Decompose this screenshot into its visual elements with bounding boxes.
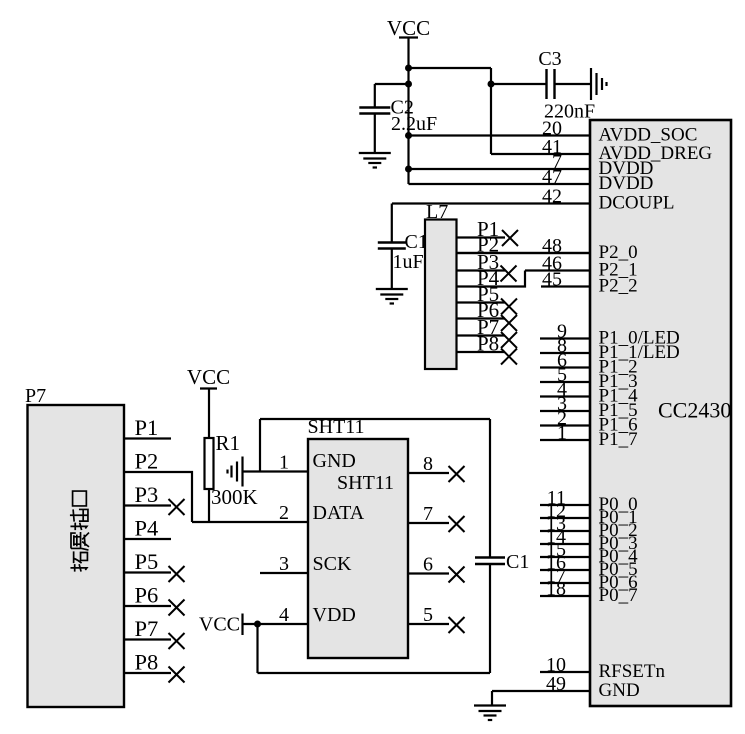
- wire VCC bar to SHT11 pin4: [243, 623, 309, 625]
- CC2430 pin 3 P1_5 wire: [540, 410, 591, 412]
- svg-text:P6: P6: [135, 583, 159, 608]
- no-connect X at SHT11 pin 7: [449, 516, 465, 532]
- SHT11 pin 5 stub wire: [408, 623, 449, 625]
- no-connect X at P7 pin P3: [169, 499, 185, 515]
- IC U1 SHT11 body: [308, 439, 408, 658]
- svg-text:P2_2: P2_2: [599, 276, 638, 297]
- CC2430 pin 48 P2_0 wire: [457, 252, 592, 254]
- CC2430 pin 42 DCOUPL wire: [392, 202, 591, 204]
- svg-text:C1: C1: [506, 551, 529, 573]
- junction at SHT11 VDD: [254, 621, 261, 628]
- resistor R1 body: [205, 438, 214, 489]
- capacitor C3: [547, 69, 555, 99]
- wire P7 pin P8: [124, 672, 171, 674]
- svg-text:DATA: DATA: [313, 502, 365, 524]
- wire P7 pin P1: [124, 437, 171, 439]
- svg-text:4: 4: [279, 604, 289, 626]
- capacitor C2: [359, 108, 390, 114]
- CC2430 pin 45 P2_2 wire: [541, 285, 591, 287]
- ground below CC2430 GND: [474, 706, 506, 721]
- wire SHT11 loop right lower: [489, 564, 491, 673]
- no-connect X at L7 pin P3: [501, 266, 517, 282]
- svg-text:P8: P8: [135, 650, 159, 675]
- wire L7 pin P7 stub: [457, 334, 506, 336]
- CC2430 pin 14 P0_3 wire: [540, 543, 591, 545]
- CC2430 pin 18 P0_7 wire: [540, 595, 591, 597]
- CC2430 pin 17 P0_6 wire: [540, 582, 591, 584]
- wire L7 P2 to CC2430 pin 48: [457, 252, 592, 254]
- junction on VCC rail at top wire: [405, 65, 412, 72]
- no-connect X at SHT11 pin 8: [449, 466, 465, 482]
- wire SHT11 loop right upper: [489, 419, 491, 558]
- SHT11 pin 6 stub wire: [408, 572, 449, 574]
- wire C2 top lead: [374, 84, 376, 108]
- wire R1 bottom to DATA net: [208, 489, 210, 522]
- svg-text:6: 6: [423, 554, 433, 576]
- svg-text:P7: P7: [135, 616, 159, 641]
- CC2430 pin 49 GND wire: [492, 690, 591, 692]
- wire P2/DATA net horizontal: [192, 521, 308, 523]
- wire P7 pin P3: [124, 504, 171, 506]
- svg-text:P1_7: P1_7: [599, 429, 638, 450]
- wire SHT11 pin1 GND: [243, 470, 309, 472]
- wire L7 P4 to CC2430 pin 46 (step up): [457, 271, 526, 287]
- CC2430 pin 47 DVDD wire: [409, 183, 592, 185]
- CC2430 pin 41 AVDD_DREG wire: [491, 153, 591, 155]
- svg-text:VCC: VCC: [199, 614, 240, 636]
- svg-text:1: 1: [279, 452, 289, 474]
- svg-text:GND: GND: [313, 450, 356, 472]
- svg-text:RFSETn: RFSETn: [599, 661, 666, 682]
- wire L7 pin P1 stub: [457, 236, 506, 238]
- svg-text:3: 3: [279, 553, 289, 575]
- no-connect X at SHT11 pin 6: [449, 567, 465, 583]
- junction on VCC rail at C2 branch: [405, 81, 412, 88]
- SHT11 pin 7 stub wire: [408, 522, 449, 524]
- CC2430 pin 20 AVDD_SOC wire: [409, 134, 592, 136]
- wire P7 pin P2: [124, 472, 192, 522]
- wire SHT11 loop left lower vertical: [256, 624, 258, 673]
- svg-text:2.2uF: 2.2uF: [391, 113, 437, 135]
- svg-text:49: 49: [546, 673, 566, 695]
- ground below C1: [376, 289, 408, 304]
- svg-text:P2: P2: [135, 449, 159, 474]
- wire P7 pin P6: [124, 605, 171, 607]
- svg-text:C3: C3: [538, 48, 561, 70]
- svg-text:P7: P7: [25, 385, 46, 407]
- wire L7 pin P8 stub: [457, 351, 506, 353]
- no-connect X at L7 pin P8: [501, 349, 517, 365]
- CC2430 pin 12 P0_1 wire: [540, 517, 591, 519]
- svg-text:GND: GND: [599, 680, 640, 701]
- wire SHT11 GND loop left vertical: [259, 419, 261, 472]
- wire SHT11 loop bottom: [258, 672, 491, 674]
- no-connect X at L7 pin P7: [501, 332, 517, 348]
- no-connect X at P7 pin P6: [169, 600, 185, 616]
- ground left of SHT11 pin1 (rotated): [228, 457, 243, 487]
- IC U2 CC2430 body: [590, 120, 731, 706]
- CC2430 pin 46 P2_1 wire: [525, 269, 591, 271]
- svg-text:VCC: VCC: [187, 365, 230, 389]
- svg-text:8: 8: [423, 453, 433, 475]
- junction on C3 branch: [488, 81, 495, 88]
- capacitor C1 (SHT11 decoupling): [475, 558, 505, 565]
- CC2430 pin 11 P0_0 wire: [540, 504, 591, 506]
- CC2430 pin 2 P1_6 wire: [540, 424, 591, 426]
- svg-text:R1: R1: [216, 431, 241, 455]
- svg-text:2: 2: [279, 502, 289, 524]
- CC2430 pin 16 P0_5 wire: [540, 569, 591, 571]
- svg-text:18: 18: [546, 578, 566, 600]
- CC2430 pin 4 P1_4 wire: [540, 395, 591, 397]
- wire CC2430 pin49 GND down: [491, 691, 493, 705]
- svg-text:P1: P1: [135, 415, 159, 440]
- svg-text:P0_7: P0_7: [599, 585, 638, 606]
- no-connect X at P7 pin P7: [169, 633, 185, 649]
- wire C1 bottom lead: [391, 249, 393, 289]
- wire SHT11 pin3 SCK stub: [260, 572, 308, 574]
- junction on VCC rail at pin20 wire: [405, 132, 412, 139]
- svg-text:DVDD: DVDD: [599, 173, 654, 194]
- wire L7 pin P3 stub: [457, 269, 506, 271]
- no-connect X at L7 pin P1: [502, 230, 518, 246]
- wire VCC to R1 top: [208, 390, 210, 439]
- svg-text:300K: 300K: [211, 485, 258, 509]
- svg-text:42: 42: [542, 186, 562, 208]
- CC2430 pin 5 P1_3 wire: [540, 381, 591, 383]
- wire P7 pin P7: [124, 638, 171, 640]
- svg-text:DCOUPL: DCOUPL: [599, 193, 675, 214]
- CC2430 pin 1 P1_7 wire: [540, 439, 591, 441]
- wire P7 pin P4: [124, 538, 171, 540]
- wire P7 pin P5: [124, 571, 171, 573]
- CC2430 pin 7 DVDD wire: [409, 168, 592, 170]
- CC2430 pin 10 RFSETn wire: [540, 671, 591, 673]
- SHT11 pin 8 stub wire: [408, 472, 449, 474]
- CC2430 pin 9 P1_0/LED wire: [540, 337, 591, 339]
- svg-text:SCK: SCK: [313, 553, 352, 575]
- ground below C2: [359, 153, 391, 168]
- wire L7 pin P6 stub: [457, 317, 506, 319]
- svg-text:SHT11: SHT11: [337, 472, 394, 494]
- ground right of C3 (rotated): [591, 68, 607, 100]
- wire DCOUPL corner down to C1: [391, 204, 393, 243]
- svg-text:P5: P5: [135, 549, 159, 574]
- no-connect X at P7 pin P8: [169, 667, 185, 683]
- svg-text:1uF: 1uF: [393, 251, 424, 273]
- svg-text:7: 7: [423, 503, 433, 525]
- CC2430 pin 8 P1_1/LED wire: [540, 352, 591, 354]
- svg-text:P3: P3: [135, 482, 159, 507]
- svg-text:5: 5: [423, 604, 433, 626]
- connector L7 body: [425, 220, 457, 370]
- connector P7 Chinese label tuo-zhan-cha-kou: [70, 551, 87, 571]
- svg-text:220nF: 220nF: [544, 101, 595, 123]
- wire SHT11 loop top: [260, 418, 490, 420]
- wire C2 branch horizontal: [375, 83, 409, 85]
- wire to C3 left plate: [491, 83, 547, 85]
- no-connect X at L7 pin P5: [501, 299, 517, 315]
- connector P7 body: [28, 405, 125, 707]
- no-connect X at P7 pin P5: [169, 566, 185, 582]
- svg-text:CC2430: CC2430: [658, 398, 731, 423]
- junction on VCC rail at pin7 wire: [405, 166, 412, 173]
- svg-text:1: 1: [557, 422, 567, 444]
- wire VCC to C3 branch top: [409, 67, 492, 69]
- svg-text:45: 45: [542, 269, 562, 291]
- svg-text:P4: P4: [135, 516, 159, 541]
- svg-text:VDD: VDD: [313, 604, 356, 626]
- CC2430 pin 15 P0_4 wire: [540, 556, 591, 558]
- CC2430 pin 13 P0_2 wire: [540, 530, 591, 532]
- wire C3 right plate to ground: [555, 83, 592, 85]
- no-connect X at SHT11 pin 5: [449, 617, 465, 633]
- wire C3 branch vertical: [490, 68, 492, 154]
- CC2430 pin 6 P1_2 wire: [540, 366, 591, 368]
- capacitor C1 (1uF): [378, 243, 406, 249]
- wire L7 pin P5 stub: [457, 301, 506, 303]
- no-connect X at L7 pin P6: [501, 315, 517, 331]
- wire C2 bottom lead: [374, 114, 376, 154]
- wire VCC vertical rail: [407, 39, 409, 185]
